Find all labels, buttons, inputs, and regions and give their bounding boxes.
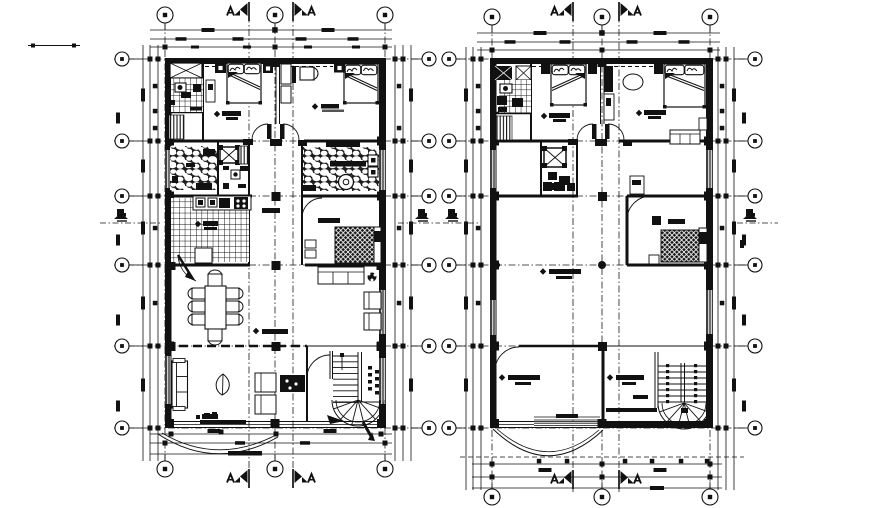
bath blob plan1: [181, 92, 191, 98]
left dimension line plan1: [142, 45, 144, 461]
grid row line 2 plan2: [441, 345, 762, 347]
bathroom floor tiles plan1: [171, 78, 203, 112]
dark blob row3 plan1: [301, 185, 316, 191]
door leaf left entry plan2: [592, 124, 597, 139]
plant leaf plan1: [216, 374, 229, 395]
grid bubble 6 right plan2: [748, 52, 762, 66]
bottom dimension line plan2: [472, 487, 722, 489]
interior wall row2 dashed plan1: [165, 345, 307, 348]
entry threshold blobs plan1: [243, 139, 253, 145]
datum line right plan1: [398, 222, 440, 224]
grid column line A plan2: [491, 25, 493, 490]
window right wall 1 plan1: [380, 150, 385, 190]
grid bubble B bottom plan2: [594, 489, 610, 505]
oval table plan2: [623, 74, 643, 90]
section mark A top-right plan2: [618, 2, 620, 21]
bottom dimension line plan1: [150, 442, 392, 444]
grid bubble A bottom plan2: [484, 489, 500, 505]
interior wall row4 right plan2: [619, 140, 713, 143]
dimension ticks and text plan2: [534, 31, 547, 35]
sofa bedroom2 plan2: [670, 130, 700, 144]
grid bubble 4 right-of-plan1: [422, 189, 436, 203]
cabinet boxes plan1: [368, 155, 378, 166]
wall column blobs plan1: [165, 137, 174, 146]
stair tread arrows plan2: [666, 364, 669, 367]
grid column line A plan1: [164, 23, 166, 462]
interior wall row4 right plan1: [304, 140, 386, 143]
pebble bath wall plan1: [217, 141, 219, 196]
grid bubble 2 right plan2: [748, 339, 762, 353]
top dimension line plan2: [477, 41, 720, 43]
right dimension line plan1: [402, 45, 404, 461]
nightstand plan2: [654, 64, 663, 74]
bedroom3 headboard plan1: [374, 227, 381, 263]
interior wall bath bottom plan1: [165, 111, 203, 114]
grid row line 5 plan1: [114, 140, 437, 142]
bedroom cabinet plan2: [652, 216, 661, 225]
wall column blobs plan2: [490, 137, 499, 146]
armchair bedroom2 plan1: [300, 67, 314, 80]
grid bubble 3 left plan1: [115, 258, 129, 272]
elevator shaft plan2: [544, 148, 566, 167]
section mark A bottom-right plan1: [292, 469, 294, 488]
right dimension line plan2: [717, 47, 719, 490]
plant plan1: [368, 273, 377, 282]
outer wall bottom solid right plan2: [603, 421, 713, 428]
datum line right plan2: [737, 222, 778, 224]
grid bubble 5 left plan1: [115, 134, 129, 148]
washer plan1: [339, 175, 354, 190]
dining table and chairs plan1: [205, 286, 226, 329]
grid bubble 4 left plan1: [115, 189, 129, 203]
nightstand left B1 plan1: [215, 63, 226, 73]
hall cabinet plan2: [630, 176, 644, 194]
bedroom door arc plan2: [627, 196, 651, 220]
interior wall row2 bedroom plan2: [627, 264, 713, 267]
grid bubble A bottom plan1: [157, 461, 173, 477]
section line A-A right plan2: [618, 2, 620, 492]
label hall plan2: [540, 268, 546, 274]
section mark A top-left plan1: [248, 2, 250, 21]
door arc right entry plan1: [283, 124, 299, 140]
sofa top-right plan1: [318, 267, 364, 284]
grid bubble 2 left plan1: [115, 339, 129, 353]
grid bubble 3 left plan2: [442, 258, 456, 272]
left dimension line plan2: [465, 47, 467, 490]
label mid hall plan1: [262, 208, 280, 213]
outer wall right plan2: [706, 58, 713, 428]
porch arc plan2: [493, 429, 603, 456]
bath closet dark plan2: [495, 66, 512, 80]
label stair hall plan2: [607, 374, 613, 380]
room label b2 plan2: [636, 110, 642, 116]
left dimension line plan2: [480, 47, 482, 490]
interior wall bedrooms divider plan1: [275, 58, 277, 124]
left dimension line plan1: [149, 45, 151, 461]
wc fixtures plan2: [548, 172, 557, 180]
outer wall bottom lintel bar plan1: [200, 420, 246, 424]
section line A-A right plan1: [292, 2, 294, 488]
bottom dimension line plan2: [472, 476, 722, 478]
top dimension line plan1: [150, 29, 392, 31]
grid column line C plan1: [384, 23, 386, 462]
utility fixtures plan2: [543, 182, 552, 191]
interior wall row2 right plan1: [305, 264, 386, 267]
right dimension line plan2: [725, 47, 727, 490]
interior wall elevator right plan2: [576, 141, 578, 196]
bottom wall blobs plan1: [204, 413, 210, 417]
section line A-A left plan2: [572, 2, 574, 492]
window right wall 2 plan2: [707, 290, 712, 334]
toilet plan2: [500, 84, 512, 93]
interior wall stair enclosure plan1: [306, 346, 308, 421]
bed B1 plan1: [227, 63, 261, 103]
radiator stripes plan2: [496, 116, 512, 140]
grid node dot plan2: [598, 261, 606, 269]
grid bubble 1 right-of-plan1: [422, 421, 436, 435]
bath corner cross plan2: [516, 66, 531, 80]
section mark A bottom-left plan1: [248, 469, 250, 488]
wardrobe plan1: [281, 64, 291, 84]
grid bubble 6 right-of-plan1: [422, 52, 436, 66]
grid bubble 1 right plan2: [748, 421, 762, 435]
bed B1 plan2: [551, 64, 586, 105]
grid column line C plan2: [709, 25, 711, 490]
stair dark wedge plan1: [327, 415, 344, 424]
toilet plan1: [175, 83, 186, 92]
kitchen door leaf plan1: [178, 255, 193, 279]
grid bubble 5 right-of-plan1: [422, 134, 436, 148]
grid bubble 3 right-of-plan1: [422, 258, 436, 272]
nightstand plan2: [541, 64, 550, 74]
grid bubble 5 right plan2: [748, 134, 762, 148]
grid bubble 2 right-of-plan1: [422, 339, 436, 353]
stair arrow plan1: [363, 422, 372, 438]
dashed wall face line bedroom1 plan1: [205, 66, 226, 68]
grid bubble 3 right plan2: [748, 258, 762, 272]
bedroom chair plan2: [649, 255, 659, 264]
spiral stair fan plan2: [658, 403, 710, 429]
pebble floor left plan1: [170, 146, 218, 190]
bathroom closet cross plan1: [170, 63, 202, 78]
grid bubble 4 right plan2: [748, 189, 762, 203]
section mark A bottom-right plan2: [618, 470, 620, 489]
window right wall 1 plan2: [707, 150, 712, 188]
grid bubble 5 left plan2: [442, 134, 456, 148]
interior wall stair hall plan2: [602, 346, 605, 428]
label hall lower-left plan2: [499, 374, 505, 380]
grid bubble C top plan2: [702, 9, 718, 25]
stair landing edge plan2: [606, 408, 657, 412]
interior wall elevator left plan2: [540, 141, 542, 196]
hall door arc plan2: [495, 347, 519, 371]
dashed wall face line b2 plan2: [614, 66, 653, 68]
label small plan2: [633, 395, 648, 399]
grid bubble 2 left plan2: [442, 339, 456, 353]
window left wall bath plan1: [166, 150, 171, 188]
elevator shaft plan1: [220, 147, 238, 163]
armchair plan1: [364, 292, 381, 309]
grid bubble B bottom plan1: [267, 461, 283, 477]
door leaf left entry plan1: [267, 124, 272, 139]
grid bubble 6 left plan1: [115, 52, 129, 66]
label living plan1: [202, 414, 218, 419]
shelving strip plan1: [239, 146, 248, 164]
datum line left plan1: [100, 222, 160, 224]
section mark A bottom-left plan2: [572, 470, 574, 489]
room label b1 plan2: [541, 113, 547, 119]
staircase treads plan1: [329, 351, 331, 379]
bath fixtures plan2: [497, 96, 507, 105]
grid bubble C bottom plan2: [702, 489, 718, 505]
bottom dimension line plan1: [150, 433, 392, 435]
outer wall right plan1: [379, 58, 386, 428]
window right wall 2 plan1: [380, 290, 385, 334]
coffee table dark plan1: [280, 375, 305, 392]
grid row line 3 plan1: [114, 264, 437, 266]
dimension ticks and text plan1: [202, 28, 215, 32]
left dimension line plan1: [157, 45, 159, 461]
top dimension line plan1: [150, 38, 392, 40]
dashed wall face line bedroom2 plan1: [281, 66, 333, 68]
grid bubble C bottom plan1: [377, 461, 393, 477]
dashed wall face line b1 plan2: [532, 66, 550, 68]
outer wall top plan2: [490, 58, 713, 64]
window bottom wall sill plan2: [534, 422, 600, 427]
top dimension line plan2: [477, 49, 720, 51]
outer wall bottom sills plan1: [165, 421, 386, 423]
grid bubble A top plan1: [157, 7, 173, 23]
grid bubble 1 left plan2: [442, 421, 456, 435]
side box plan2: [699, 118, 707, 130]
bed headboard plan2: [699, 228, 707, 262]
grid bubble B top plan2: [594, 9, 610, 25]
grid row line 5 plan2: [441, 140, 762, 142]
grid bubble A top plan2: [484, 9, 500, 25]
door arc left entry plan1: [252, 124, 268, 140]
grid row line 1 plan1: [114, 427, 437, 429]
window left wall living plan1: [166, 356, 171, 404]
label dining plan1: [253, 328, 259, 334]
interior wall bath bottom plan2: [490, 112, 531, 115]
level marker symbol: [448, 209, 455, 216]
outer wall left plan2: [490, 58, 497, 428]
nightstand B2 plan1: [334, 63, 345, 73]
right dimension line plan2: [733, 47, 735, 490]
door leaf right entry plan1: [280, 124, 285, 139]
interior wall row2 left plan1: [165, 264, 250, 267]
grid bubble C top plan1: [377, 7, 393, 23]
window left wall 1 plan2: [491, 150, 496, 188]
grid bubble 1 left plan1: [115, 421, 129, 435]
door arc right entry plan2: [608, 124, 624, 140]
bed B2 plan2: [664, 64, 705, 107]
interior wall hall right plan1: [301, 141, 303, 265]
section line A-A left plan1: [248, 2, 250, 488]
spiral stair fan plan1: [332, 400, 384, 426]
hall shelves plan1: [305, 240, 316, 248]
kitchen counter plan1: [193, 196, 251, 210]
level marker symbol: [117, 209, 124, 216]
armchair plan1: [364, 313, 381, 330]
level marker symbol: [418, 209, 425, 216]
interior wall row2 stub plan2: [490, 264, 500, 267]
bottom dimension line plan2: [472, 463, 722, 465]
grid row line 2 plan1: [114, 345, 437, 347]
bath tiles plan2: [499, 80, 531, 113]
bed B2 plan1: [344, 64, 378, 103]
right dimension line plan1: [394, 45, 396, 461]
interior wall row2 right thin plan2: [603, 345, 713, 347]
window right wall 3 plan1: [380, 358, 385, 404]
top dimension line plan1: [150, 46, 392, 48]
interior wall hall left plan1: [248, 141, 250, 265]
interior wall bedroom left plan2: [626, 196, 629, 265]
grid row line 1 plan2: [441, 427, 762, 429]
grid row line 3 plan2: [441, 264, 762, 266]
left dimension line plan2: [472, 47, 474, 490]
hall door arc plan1: [302, 198, 322, 218]
grid bubble 6 left plan2: [442, 52, 456, 66]
pebble bath fixtures plan1: [203, 149, 215, 156]
interior wall row3 left plan1: [165, 195, 252, 198]
outer wall left plan1: [165, 58, 172, 428]
right dimension line plan1: [410, 45, 412, 461]
bedroom3 dresser plan1: [318, 218, 340, 223]
window sill interior plan2: [534, 416, 600, 418]
fridge plan1: [195, 248, 212, 263]
grid bubble B top plan1: [267, 7, 283, 23]
interior wall row2 left plan2: [519, 345, 603, 348]
section mark A top-right plan1: [292, 2, 294, 21]
section mark A top-left plan2: [572, 2, 574, 21]
bottom dashed outline plan2: [460, 456, 744, 458]
interior wall row3 left plan2: [490, 195, 578, 198]
sink plan1: [193, 84, 201, 92]
porch arc plan1: [158, 434, 278, 454]
grid row line 4 plan2: [441, 195, 762, 197]
interior wall bath right plan2: [530, 58, 532, 141]
interior wall bedrooms divider plan2: [600, 58, 602, 124]
grid row line 6 plan1: [114, 58, 437, 60]
radiator stripes plan1: [169, 115, 184, 139]
interior wall row4 left plan1: [165, 140, 246, 143]
grid row line 4 plan1: [114, 195, 437, 197]
grid column line B plan1: [274, 23, 276, 462]
door leaf right entry plan2: [605, 124, 610, 139]
bed dark rug plan2: [661, 230, 699, 262]
nightstand plan2: [588, 64, 597, 74]
kitchen label plan1: [195, 221, 201, 227]
interior wall row2 thin plan1: [307, 345, 386, 347]
counter dark bar plan1: [326, 142, 360, 147]
entry threshold blobs plan2: [568, 139, 578, 145]
wardrobe strip plan2: [604, 66, 613, 92]
grid column line B plan2: [601, 25, 603, 490]
outer wall bottom sills left plan2: [490, 421, 603, 423]
interior wall row3 right plan2: [627, 195, 713, 198]
window left wall 2 plan2: [491, 300, 496, 335]
kitchen floor tiles plan1: [171, 198, 249, 262]
top-left extension line: [28, 45, 80, 47]
armchair pair plan1: [255, 373, 276, 392]
bedroom dresser plan2: [668, 219, 685, 224]
interior wall row4 left plan2: [490, 140, 574, 143]
interior wall row3 right plan1: [302, 195, 386, 198]
edge tick plan2: [740, 240, 744, 248]
bottom dimension line plan1: [150, 453, 392, 455]
outer wall top plan1: [165, 58, 386, 64]
grid bubble 4 left plan2: [442, 189, 456, 203]
pebble floor right plan1: [303, 147, 379, 191]
desk bedroom1 plan1: [206, 80, 215, 102]
wc fixtures plan1: [223, 166, 229, 170]
room label bedroom2 plan1: [312, 103, 318, 109]
nightstand right B1 plan1: [263, 64, 273, 73]
door arc left entry plan2: [577, 124, 593, 140]
stair dimension ticks plan1: [368, 366, 372, 370]
grid row line 6 plan2: [441, 58, 762, 60]
sofa living plan1: [172, 361, 188, 408]
staircase treads plan2: [654, 352, 656, 408]
interior wall kitchen right plan1: [248, 196, 250, 265]
room label bedroom1 plan1: [214, 111, 220, 117]
datum line mid plan2: [443, 222, 478, 224]
wc toilet plan1: [231, 170, 240, 179]
interior wall bath right plan1: [202, 58, 204, 141]
level marker symbol: [746, 209, 753, 216]
top dimension line plan2: [477, 32, 720, 34]
bedroom3 bed dark rug plan1: [335, 227, 375, 263]
